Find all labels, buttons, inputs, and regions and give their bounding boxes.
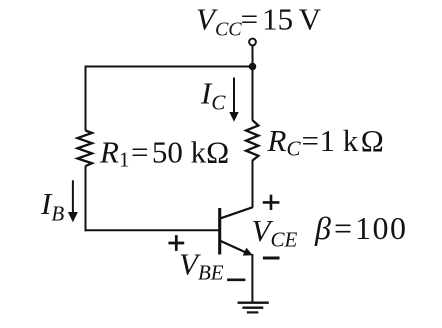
current arrow IB	[72, 180, 74, 213]
label plus VBE	[168, 235, 184, 251]
wire collector vertical	[252, 160, 254, 208]
label minus VBE	[227, 278, 245, 281]
wire top horizontal	[86, 66, 253, 68]
svg-text:RC=1 kΩ: RC=1 kΩ	[267, 123, 384, 161]
wire left upper	[85, 66, 87, 131]
svg-text:VCE: VCE	[252, 213, 298, 252]
node junction	[249, 63, 257, 71]
resistor R1	[78, 131, 93, 167]
wire terminal to node	[252, 45, 254, 66]
wire node to RC	[252, 67, 254, 121]
svg-text:β=100: β=100	[314, 210, 407, 246]
wire base horizontal	[85, 229, 220, 231]
svg-text:IC: IC	[200, 76, 226, 115]
wire emitter vertical	[251, 254, 253, 303]
terminal VCC	[249, 39, 256, 46]
ground	[238, 303, 269, 313]
resistor RC	[246, 120, 258, 160]
svg-text:IB: IB	[40, 186, 64, 226]
svg-text:R1=50 kΩ: R1=50 kΩ	[99, 135, 229, 172]
label plus VCE	[263, 195, 280, 210]
svg-text:VBE: VBE	[179, 246, 224, 284]
label minus VCE	[263, 257, 280, 260]
transistor Q1	[220, 207, 253, 255]
current arrow IC	[233, 78, 235, 114]
wire left lower	[85, 166, 87, 232]
svg-text:VCC=15V: VCC=15V	[196, 1, 322, 40]
